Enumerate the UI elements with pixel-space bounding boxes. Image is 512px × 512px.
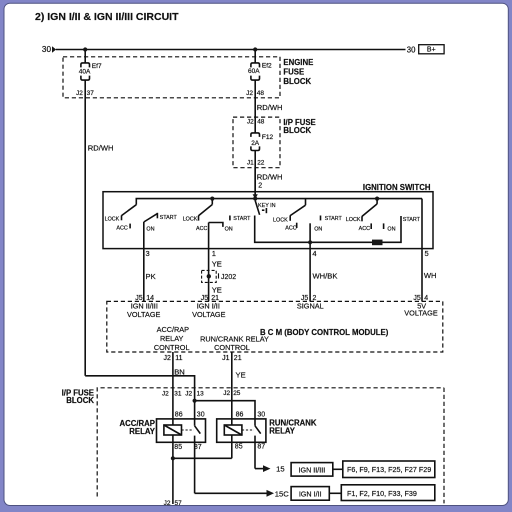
svg-text:30: 30 [197, 411, 205, 418]
svg-text:RD/WH: RD/WH [88, 143, 114, 152]
svg-text:YE: YE [236, 370, 246, 379]
svg-text:40A: 40A [79, 68, 91, 75]
svg-text:J2: J2 [162, 391, 169, 398]
svg-text:LOCK: LOCK [105, 216, 120, 222]
svg-text:F12: F12 [262, 134, 274, 141]
svg-text:ACC/RAP: ACC/RAP [157, 325, 190, 334]
svg-text:ON: ON [314, 226, 322, 232]
svg-text:2A: 2A [251, 140, 260, 147]
svg-text:RD/WH: RD/WH [257, 103, 283, 112]
svg-text:85: 85 [235, 444, 243, 451]
svg-text:5: 5 [425, 249, 429, 258]
svg-text:ENGINE: ENGINE [283, 58, 313, 67]
svg-text:4: 4 [312, 249, 316, 258]
svg-text:15C: 15C [275, 489, 289, 498]
svg-text:31: 31 [174, 391, 182, 398]
svg-text:YE: YE [212, 286, 222, 295]
svg-text:ON: ON [146, 226, 154, 232]
svg-text:RD/WH: RD/WH [257, 172, 283, 181]
svg-text:ACC: ACC [196, 226, 207, 232]
svg-text:VOLTAGE: VOLTAGE [404, 308, 438, 317]
svg-text:FUSE: FUSE [283, 68, 304, 77]
svg-text:BN: BN [174, 368, 185, 377]
svg-text:25: 25 [233, 390, 241, 397]
svg-text:2) IGN I/II & IGN II/III CIRCU: 2) IGN I/II & IGN II/III CIRCUIT [35, 11, 179, 23]
svg-text:KEY IN: KEY IN [258, 203, 276, 209]
svg-text:21: 21 [234, 355, 242, 362]
svg-text:WH/BK: WH/BK [313, 272, 338, 281]
svg-text:2: 2 [258, 183, 262, 190]
svg-text:J2: J2 [185, 391, 192, 398]
svg-text:VOLTAGE: VOLTAGE [192, 310, 226, 319]
svg-text:86: 86 [236, 412, 244, 419]
svg-text:WH: WH [424, 271, 437, 280]
svg-text:START: START [325, 216, 343, 222]
svg-text:F6, F9, F13, F25, F27 F29: F6, F9, F13, F25, F27 F29 [347, 465, 431, 474]
svg-text:48: 48 [257, 119, 265, 126]
svg-text:22: 22 [257, 160, 265, 167]
svg-text:BLOCK: BLOCK [66, 396, 94, 405]
svg-text:ON: ON [387, 227, 395, 233]
svg-text:CONTROL: CONTROL [154, 343, 190, 352]
svg-text:15: 15 [276, 465, 284, 474]
svg-text:30: 30 [257, 412, 265, 419]
svg-text:LOCK: LOCK [346, 217, 361, 223]
svg-text:J2: J2 [164, 500, 171, 507]
svg-text:RELAY: RELAY [269, 426, 296, 435]
svg-text:J202: J202 [221, 274, 236, 281]
svg-text:ON: ON [225, 226, 233, 232]
svg-text:1: 1 [212, 249, 216, 258]
svg-text:RELAY: RELAY [160, 334, 184, 343]
svg-text:13: 13 [197, 391, 205, 398]
svg-text:J2: J2 [246, 90, 253, 97]
svg-text:YE: YE [212, 259, 222, 268]
svg-text:BLOCK: BLOCK [283, 77, 311, 86]
svg-text:J2: J2 [247, 119, 254, 126]
svg-text:57: 57 [175, 500, 183, 507]
svg-text:IGN I/II: IGN I/II [299, 490, 322, 499]
svg-text:SIGNAL: SIGNAL [297, 302, 324, 311]
svg-text:J2: J2 [76, 90, 83, 97]
svg-text:3: 3 [146, 249, 150, 258]
svg-text:ACC: ACC [285, 226, 296, 232]
svg-text:LOCK: LOCK [183, 217, 198, 223]
svg-text:85: 85 [174, 444, 182, 451]
svg-text:86: 86 [175, 411, 183, 418]
svg-text:ACC: ACC [116, 226, 127, 232]
svg-text:VOLTAGE: VOLTAGE [127, 310, 161, 319]
svg-text:PK: PK [146, 272, 156, 281]
svg-text:30: 30 [42, 45, 52, 54]
svg-text:RELAY: RELAY [129, 427, 156, 436]
svg-text:37: 37 [87, 90, 95, 97]
svg-text:Ef2: Ef2 [262, 62, 272, 69]
svg-text:J1: J1 [222, 355, 230, 362]
svg-text:BLOCK: BLOCK [283, 126, 311, 135]
svg-text:B C M (BODY CONTROL MODULE): B C M (BODY CONTROL MODULE) [260, 328, 389, 337]
svg-text:LOCK: LOCK [273, 217, 288, 223]
svg-text:START: START [233, 216, 251, 222]
svg-text:30: 30 [407, 45, 416, 54]
svg-text:IGNITION SWITCH: IGNITION SWITCH [363, 183, 431, 192]
svg-text:START: START [160, 215, 178, 221]
svg-text:87: 87 [194, 444, 202, 451]
svg-text:B+: B+ [427, 47, 436, 54]
svg-text:11: 11 [175, 355, 182, 362]
svg-text:J1: J1 [247, 160, 254, 167]
svg-text:F1, F2, F10, F33, F39: F1, F2, F10, F33, F39 [347, 489, 417, 498]
svg-text:Ef7: Ef7 [92, 63, 102, 70]
svg-text:IGN II/III: IGN II/III [299, 465, 326, 474]
svg-text:J2: J2 [164, 355, 172, 362]
svg-text:CONTROL: CONTROL [214, 343, 250, 352]
svg-text:48: 48 [257, 90, 265, 97]
svg-text:60A: 60A [248, 68, 260, 75]
svg-text:START: START [403, 217, 421, 223]
svg-text:ACC: ACC [359, 226, 370, 232]
svg-text:J2: J2 [223, 390, 230, 397]
svg-text:87: 87 [257, 444, 265, 451]
